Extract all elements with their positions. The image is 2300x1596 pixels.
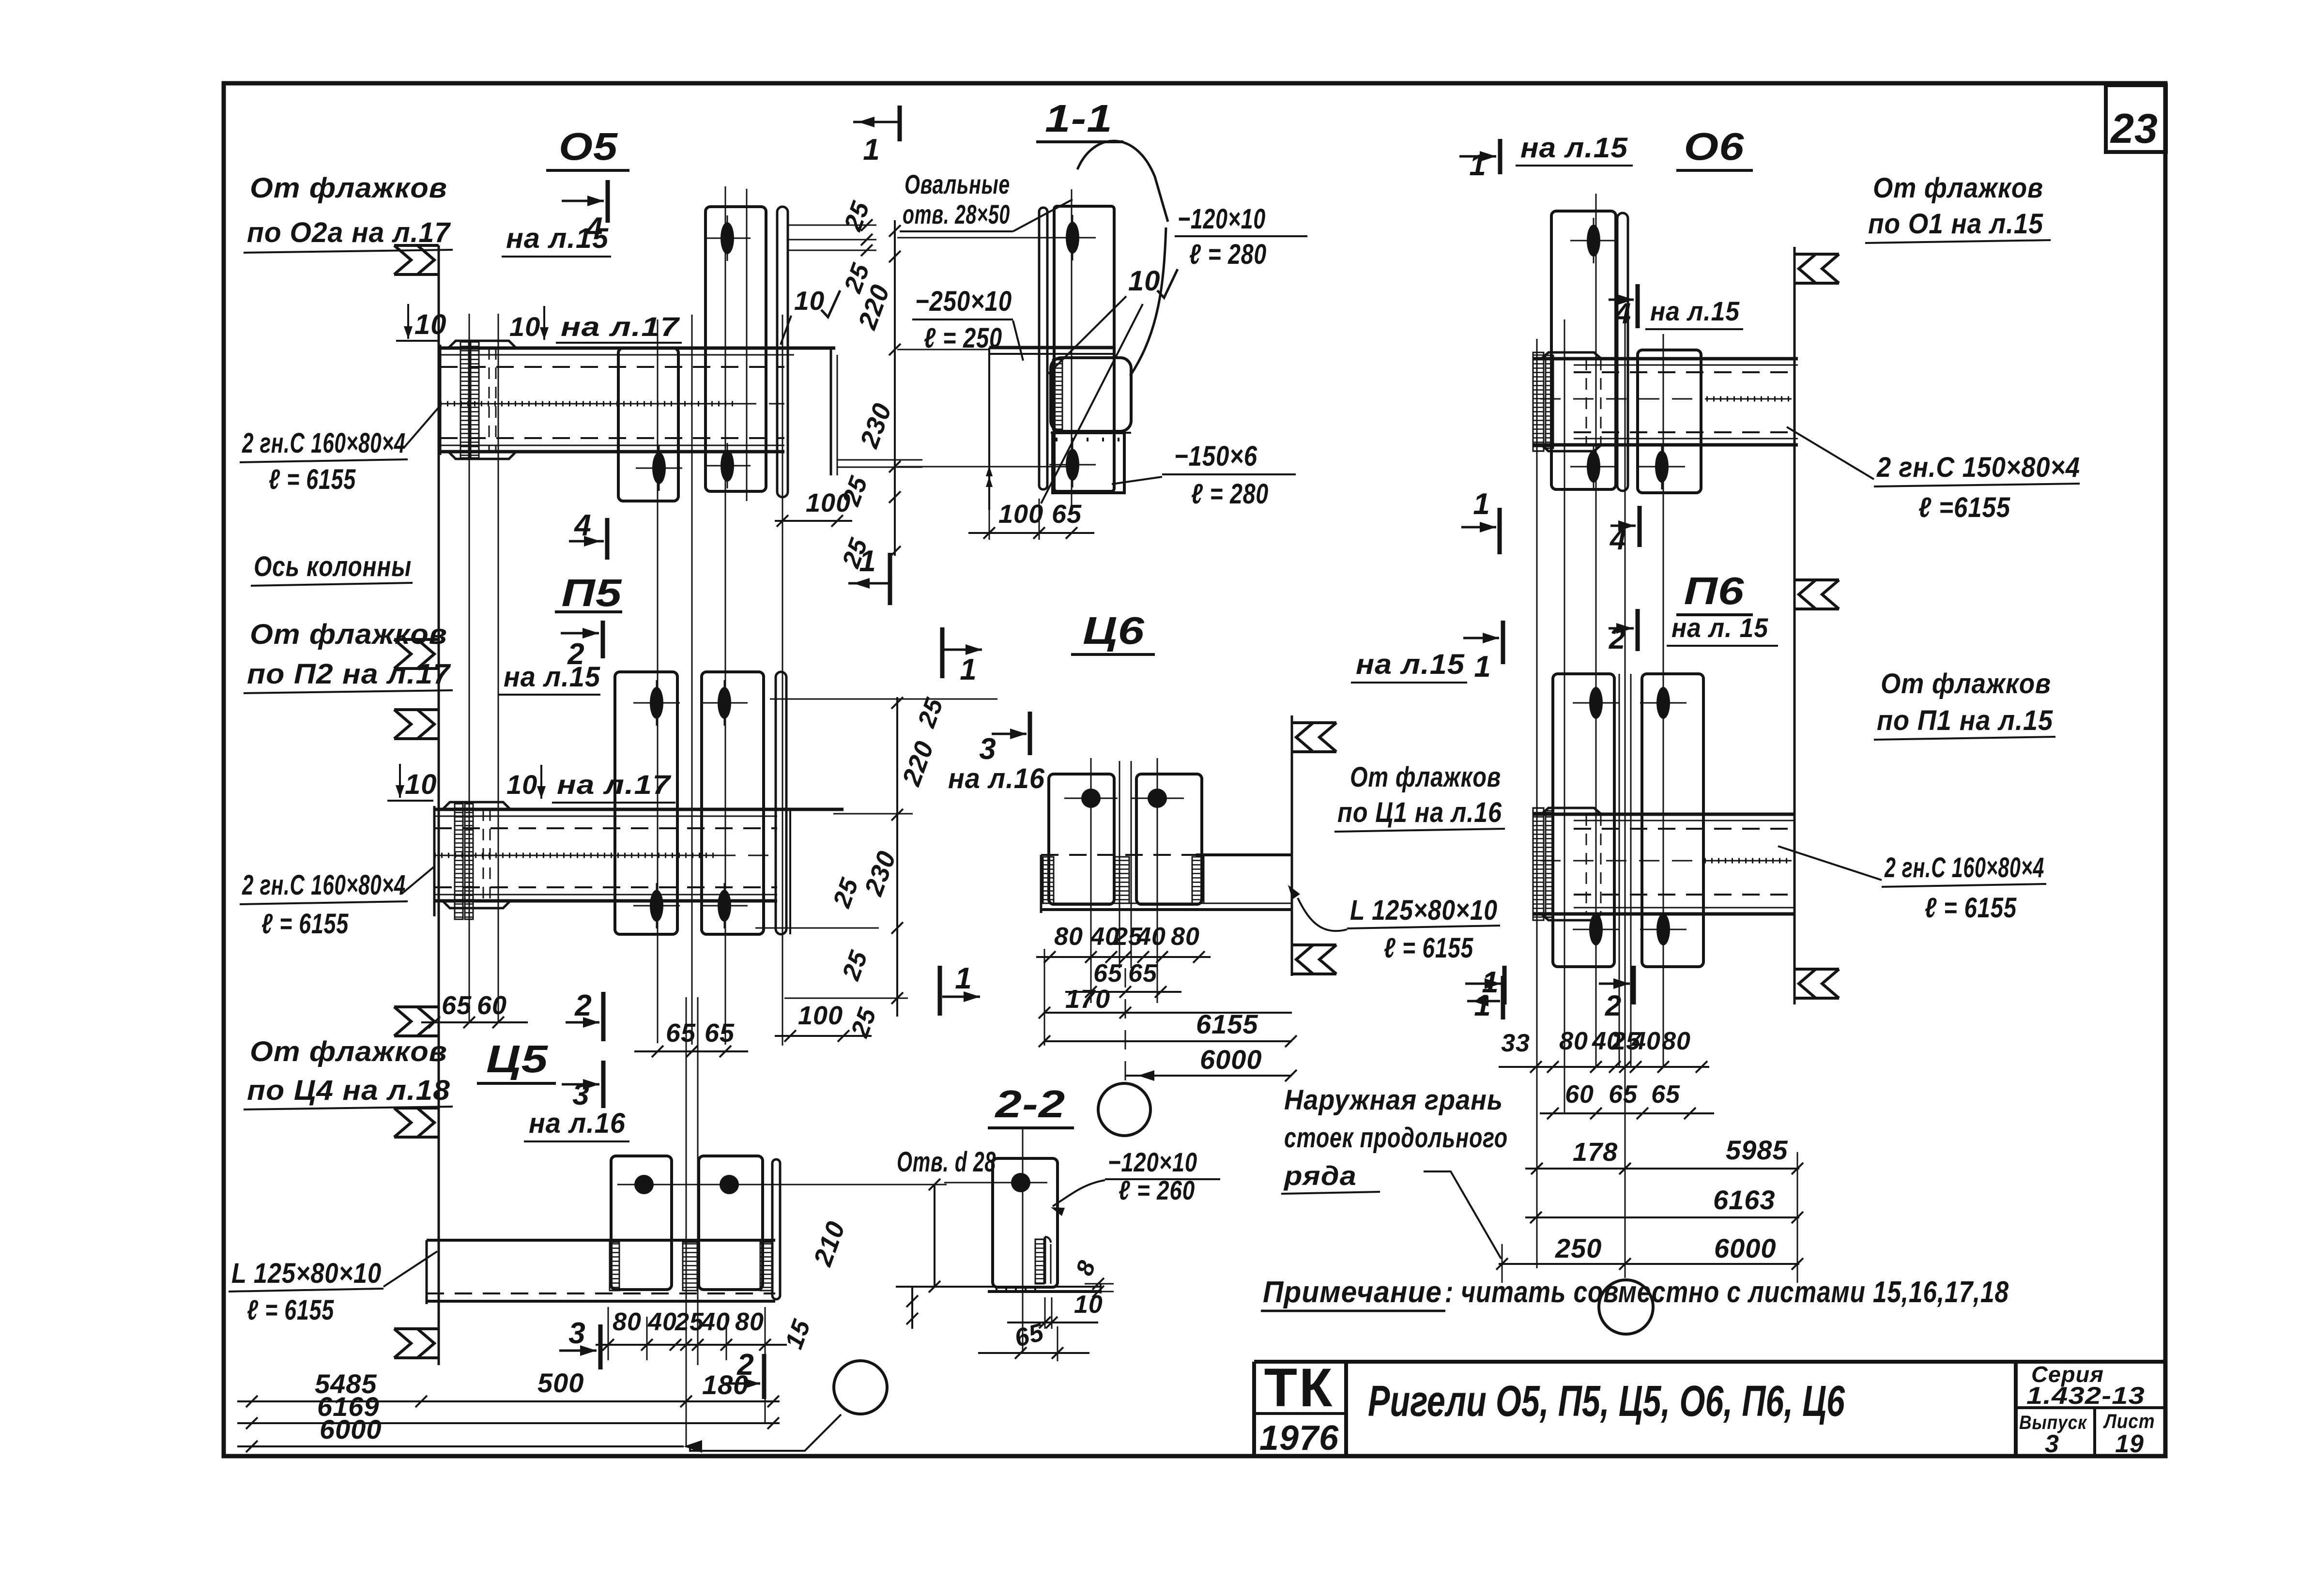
beam C5 top [427,1239,775,1242]
svg-text:1: 1 [1474,989,1491,1022]
series cell [2016,1362,2165,1456]
svg-text:2: 2 [1605,989,1622,1022]
bolt C5 B [703,1175,756,1194]
plate C5 thin edge [772,1159,780,1299]
bolt axis line b [498,314,499,1022]
column bubble C6 [1098,1083,1150,1136]
svg-text:От флажков: От флажков [250,1036,447,1067]
svg-text:на л.16: на л.16 [529,1108,626,1139]
svg-text:6000: 6000 [1714,1233,1777,1263]
title block left edge [1252,1362,1256,1456]
section mark 3 C6 [979,712,1030,766]
svg-text:по П2 на л.17: по П2 на л.17 [247,658,451,690]
svg-text:2: 2 [574,989,592,1022]
svg-text:2 гн.С 150×80×4: 2 гн.С 150×80×4 [1876,452,2080,483]
year 1976 [1259,1419,1339,1458]
svg-text:100: 100 [806,488,851,517]
svg-text:60: 60 [1565,1080,1594,1109]
label na l.15 1 C6 [1351,621,1503,684]
label ot flazhkov C4 [244,1036,453,1110]
label na l.15 P5 [499,661,600,695]
beam P5 splice strip 1 [455,803,463,919]
bolt O6 hanging [1639,444,1685,489]
bolt O6 tall top [1570,218,1617,263]
label 2gnS O5 [240,406,440,495]
beam C6 weld strip 1 [1043,857,1054,903]
label -120x10 2-2 [1051,1147,1220,1216]
svg-text:2 гн.С 160×80×4: 2 гн.С 160×80×4 [242,869,406,901]
beam P5 top flange [434,809,843,816]
svg-text:на л.15: на л.15 [1520,132,1628,164]
beam P5 end plates top [443,802,510,809]
plate O6 hanging [1638,350,1701,493]
svg-text:1: 1 [1469,149,1486,182]
section mark 3 bottom C5 [559,1317,600,1369]
label L125 C6 [1288,885,1500,964]
section mark 1 top [853,106,900,167]
svg-text:Ц6: Ц6 [1083,609,1145,652]
beam P5 dash bottom [434,886,777,888]
section mark 1 bottom [848,545,890,605]
dim chain O5 right [837,198,901,572]
plate C5 B [699,1156,763,1290]
svg-text:П5: П5 [562,571,623,614]
sheet number box [2106,85,2166,152]
beam P5 weld seam [434,855,777,856]
beam P5 right leg [789,809,791,934]
center pair C6 [1119,761,1131,968]
svg-text:250: 250 [1555,1233,1602,1263]
beam P6 top flange [1533,814,1794,821]
column bubble P6 [1599,1280,1653,1334]
section mark 2 top P5 [561,621,603,671]
section 1-1 title [1036,97,1123,142]
TK cell divider [1254,1362,1346,1456]
dim 80 40 25 40 80 C5 [596,1307,787,1423]
plate C6 B [1136,774,1202,904]
beam P6 bottom flange [1533,908,1794,914]
svg-text:ℓ = 280: ℓ = 280 [1189,239,1267,270]
svg-text:80: 80 [1662,1027,1691,1055]
svg-text:10: 10 [414,309,447,340]
plate C5 A [611,1156,672,1290]
section mark 1 C6 topleft [942,627,982,686]
svg-text:25: 25 [675,1308,704,1336]
beam C5 weld strip 2 [683,1242,697,1291]
bolt centerline C5 [620,1184,947,1186]
bolt axis line a [469,314,470,1022]
bolt P5 B bottom [701,883,748,928]
svg-text:ℓ = 6155: ℓ = 6155 [269,464,356,495]
svg-text:1: 1 [960,653,977,686]
section mark 2 P6 bottom [1599,966,1634,1022]
flag O6 top [1794,254,1839,283]
bolt P6 B bottom [1640,907,1687,952]
plate O5 hanging [618,348,678,501]
section 1-1 channel dash [1051,433,1131,440]
svg-text:60: 60 [477,991,507,1020]
svg-text:10: 10 [1128,265,1161,297]
column axis right [1794,247,1796,1004]
svg-text:40: 40 [647,1308,677,1336]
beam C5 left end [426,1240,428,1304]
plate C6 A [1049,774,1114,904]
svg-text:65: 65 [705,1018,735,1048]
svg-text:на л.15: на л.15 [1356,649,1465,680]
border frame [224,83,2165,1456]
beam C6 left end [1040,855,1043,913]
svg-text:L 125×80×10: L 125×80×10 [1350,895,1498,926]
svg-text:по О2а на л.17: по О2а на л.17 [247,217,451,248]
flag symbol C5 [394,1108,439,1137]
leader curve right [1130,228,1166,376]
svg-text:3: 3 [979,732,996,766]
label -150x6 [1112,441,1296,510]
svg-text:170: 170 [1065,985,1110,1014]
beam P6 left hatch [1533,808,1553,920]
svg-text:178: 178 [1573,1138,1618,1167]
svg-text:ℓ =6155: ℓ =6155 [1918,492,2010,523]
svg-text:ℓ = 6155: ℓ = 6155 [261,908,349,940]
plate P5 B [702,672,764,934]
svg-text:Овальные: Овальные [905,169,1010,199]
plate P6 B [1642,674,1703,967]
flag symbol below O5 [394,639,439,669]
weld mark 10 left P5 [387,764,437,801]
svg-text:1: 1 [863,133,880,167]
svg-text:От флажков: От флажков [250,172,447,204]
label L125 C5 [229,1251,437,1326]
section 1-1 channel [1051,358,1131,431]
svg-text:−150×6: −150×6 [1174,441,1257,472]
label ot flazhkov P2 [244,619,453,693]
bolt 2-2 [994,1173,1047,1192]
svg-text:100: 100 [798,1001,843,1030]
svg-text:1: 1 [1474,650,1491,684]
svg-text:2-2: 2-2 [994,1082,1065,1125]
label ot flazhkov P1 [1874,668,2055,740]
bolt centerline 2-2 [944,1182,1046,1184]
beam O6 top flange [1533,359,1798,365]
view 2-2 title [988,1082,1074,1128]
angle 2-2 flange [896,1284,1101,1293]
svg-text:2 гн.С 160×80×4: 2 гн.С 160×80×4 [1884,852,2044,883]
plate O5 thin edge [777,207,788,497]
view O6 title [1676,125,1753,170]
svg-text:О5: О5 [559,125,618,168]
bolt O5 tall top [704,215,751,261]
beam C6 top solid [1196,853,1292,856]
section mark 4 above P5 [569,509,607,560]
section mark 2 bottom P5 [725,1348,764,1399]
label ovalnye otv [900,169,1073,231]
section mark 3 C5 [562,1061,603,1111]
svg-text:по Ц4 на л.18: по Ц4 на л.18 [247,1075,450,1106]
dim 80 40 25 40 80 C6 [1036,923,1211,963]
svg-text:по П1 на л.15: по П1 на л.15 [1877,705,2053,736]
bolt P5 A bottom [633,883,680,928]
bolt axis C6 B [1157,758,1158,1003]
dim 6163 P6 [1525,1185,1803,1223]
label os kolonny [251,551,413,586]
svg-text:100: 100 [998,500,1043,529]
svg-text:От флажков: От флажков [1881,668,2051,699]
bolt C6 A [1064,789,1118,808]
beam O5 splice strip 1 [460,342,469,458]
axis line h [746,189,748,501]
svg-text:40: 40 [1136,923,1166,951]
section mark 1 P6 bottom [1465,966,1504,1022]
section mark 4 O6 bottom [1610,506,1640,556]
list 19 [2115,1430,2144,1458]
svg-text:40: 40 [1631,1027,1661,1055]
beam O6 bottom flange [1533,439,1798,445]
dim 65 65 C6 [1065,959,1181,998]
svg-text:ℓ = 6155: ℓ = 6155 [1925,892,2017,924]
beam P6 end plates top [1541,808,1601,814]
svg-text:10: 10 [1074,1291,1103,1319]
svg-text:П6: П6 [1684,569,1745,612]
svg-text:10: 10 [506,769,537,800]
beam C5 bottom [427,1300,775,1303]
weld mark 10 left O5 [396,304,447,341]
bolt C5 A [617,1175,671,1194]
svg-text:Наружная грань: Наружная грань [1284,1084,1503,1116]
svg-text:4: 4 [573,509,591,542]
weld mark 10 na l.17 O5 [509,306,682,343]
dim 6155 C6 [1039,1009,1297,1047]
plate O6 thin edge [1617,213,1628,491]
svg-text:500: 500 [537,1368,584,1398]
plate 2-2 bottom serr [996,1288,1040,1292]
svg-text:О6: О6 [1684,125,1745,168]
view P5 title [555,571,622,614]
dim 178 5985 P6 [1525,1135,1803,1174]
beam C5 weld strip 1 [610,1242,619,1291]
svg-text:80: 80 [1171,923,1200,951]
axis right a [1564,319,1565,1113]
svg-text:23: 23 [2110,106,2158,152]
svg-text:по Ц1 на л.16: по Ц1 на л.16 [1337,797,1502,828]
beam P5 splice strip 2 [465,803,473,919]
label otv d28 [897,1146,996,1178]
dim 6000 C6 [1125,1044,1297,1081]
plate P5 A [615,672,677,934]
svg-text:65: 65 [1651,1080,1680,1109]
svg-text:6155: 6155 [1196,1009,1258,1039]
angle 2-2 web [1035,1237,1051,1284]
plate O6 tall [1551,211,1616,489]
svg-text:65: 65 [1128,959,1157,988]
bolt 1-1 bottom [1049,442,1096,487]
beam O5 end plates top [448,341,516,348]
title block top line [1254,1360,2165,1364]
beam P5 bottom flange [434,895,777,901]
beam O6 dash top [1574,371,1798,373]
section 1-1 thin plate [1039,208,1047,489]
list label [2103,1410,2155,1432]
label 2gnS O6 [1787,427,2080,523]
title text Rigeli [1368,1377,1845,1426]
svg-text:Лист: Лист [2103,1410,2155,1432]
bolt O5 tall bottom [704,443,751,488]
svg-text:1: 1 [955,962,972,995]
axis right d [1536,339,1538,1268]
dim 33 80 40 25 40 80 P6 [1499,1027,1709,1073]
bolt P6 A bottom [1573,907,1619,952]
svg-text:ℓ = 6155: ℓ = 6155 [1384,932,1473,964]
section mark 2 C5 [566,989,603,1041]
svg-text:Ц5: Ц5 [486,1037,549,1080]
leader to circle C5 [690,1414,841,1451]
label -120x10 [1175,203,1307,270]
axis 2-2 [1022,1129,1024,1353]
bolt C6 B [1131,789,1184,808]
view O5 title [546,125,629,170]
flag symbol P5 low [394,1007,439,1036]
dim chain P5 lower [755,818,908,1041]
beam O5 bottom flange [440,445,784,452]
svg-text:−250×10: −250×10 [915,286,1012,317]
label na l.15 O6 top [1516,132,1633,166]
svg-text:От флажков: От флажков [1350,761,1501,793]
dim 65 65 P5 [634,1018,748,1057]
svg-text:на л.15: на л.15 [1650,296,1740,326]
flag C6 bottom [1292,945,1336,974]
flag symbol O5 top [394,245,439,274]
dim 6169 [237,1391,780,1429]
dim 100 P5 [775,1001,872,1042]
svg-text:−120×10: −120×10 [1108,1147,1197,1177]
svg-text:33: 33 [1501,1029,1530,1057]
dim 170 C6 [1039,949,1292,1046]
axis right b [1595,194,1597,1067]
section mark 2 P6 top [1609,609,1638,655]
label ot flazhkov O1 [1865,172,2051,243]
svg-text:5985: 5985 [1726,1135,1788,1165]
svg-text:стоек продольного: стоек продольного [1284,1122,1508,1154]
label na l.15 O6 mid [1645,296,1743,329]
center pair P6 [1619,674,1631,1067]
TK logo [1264,1357,1334,1418]
leader swoosh 120x10 [1077,141,1168,222]
vypusk label [2019,1412,2087,1433]
weld label 10V 1-1 [1041,265,1178,503]
section 1-1 lower plate [1053,433,1124,493]
svg-text:65: 65 [666,1018,696,1048]
beam O6 end plates bottom [1541,445,1601,451]
flag P6 bottom [1794,969,1839,998]
dim 10 2-2 [1007,1291,1103,1329]
weld mark 10 na l.17 P5 [506,765,675,803]
svg-text:3: 3 [2045,1430,2059,1458]
label ot flazhkov O2a [244,172,453,253]
weld label 10V O5 [781,286,840,345]
bolt O5 hanging plate [636,445,682,491]
beam P5 dash top [434,827,777,829]
bolt P5 A top [633,680,680,726]
beam O5 right lower lines [837,460,922,467]
section 1-1 flange [989,348,1114,510]
flag symbol C5 low [394,1329,439,1358]
label na l.15 P6 top [1667,612,1778,646]
svg-text:1: 1 [1473,487,1490,521]
svg-text:: читать совместно с листа: : читать совместно с листами 15,16,17,18 [1445,1276,2009,1309]
svg-text:2: 2 [1609,623,1625,655]
series number [2026,1382,2145,1409]
section 1-1 tall plate [1054,206,1114,491]
view P6 title [1676,569,1753,615]
view C6 title [1071,609,1155,654]
note primechanie [1261,1276,2009,1311]
dim 250 6000 P6 [1496,1152,1803,1283]
dim chain P5 upper [770,694,997,821]
svg-text:4: 4 [1614,297,1631,330]
center axis C6 low [1125,968,1126,1083]
dim 210 C5 [808,1179,940,1292]
plate O5 tall [705,207,766,491]
beam P5 splice dashes [483,809,490,901]
flag symbol P5 [394,710,439,739]
vypusk 3 [2045,1430,2059,1458]
beam O5 left end [439,345,442,455]
svg-text:ТК: ТК [1264,1357,1334,1418]
beam O6 left hatch [1533,352,1553,451]
beam P5 end plates bottom [443,901,510,908]
dim 60 65 65 P6 [1540,1080,1714,1119]
dim 8 2-2 [1071,1257,1114,1297]
label ot flazhkov C1 [1334,761,1505,832]
svg-text:3: 3 [568,1317,585,1350]
beam O5 dash bottom [440,437,784,439]
dim ext lines O5 top right [788,219,876,256]
svg-text:на л. 15: на л. 15 [1671,612,1768,643]
dim 6000 [237,1414,702,1453]
dim 100 O5 [775,488,852,527]
svg-text:Отв. d 28: Отв. d 28 [897,1146,996,1178]
svg-text:80: 80 [1054,923,1083,951]
svg-text:6163: 6163 [1713,1185,1776,1215]
svg-text:−120×10: −120×10 [1178,203,1266,235]
beam P6 dash top [1574,828,1794,830]
plate axis line e [657,319,659,1043]
svg-text:2 гн.С 160×80×4: 2 гн.С 160×80×4 [242,427,406,459]
svg-text:От флажков: От флажков [250,619,447,650]
beam P6 end plates bottom [1541,914,1601,920]
label naruzhnaya gran [1281,1084,1508,1259]
svg-text:ℓ = 6155: ℓ = 6155 [247,1294,334,1326]
beam O5 splice dashes [489,348,496,452]
bolt P6 A top [1573,680,1619,726]
label na l.16 C5 [524,1108,629,1141]
beam C5 weld strip 3 [760,1242,773,1291]
dim 5485 500 180 [237,1368,780,1407]
svg-text:6000: 6000 [1200,1044,1262,1075]
label na l.15 O5 [502,223,611,257]
svg-text:на л.17: на л.17 [561,311,680,342]
dim 100 65 1-1 [968,466,1094,540]
svg-text:10: 10 [509,311,540,342]
svg-text:80: 80 [1559,1027,1588,1055]
beam P6 weld seam [1540,860,1792,862]
svg-text:65: 65 [442,991,472,1020]
bolt 1-1 top [1049,215,1096,260]
bolt P6 B top [1640,680,1687,726]
center axis right [1625,319,1626,1278]
bolt O6 tall bottom [1570,444,1617,489]
beam P5 left end [433,806,436,916]
svg-text:19: 19 [2115,1430,2144,1458]
